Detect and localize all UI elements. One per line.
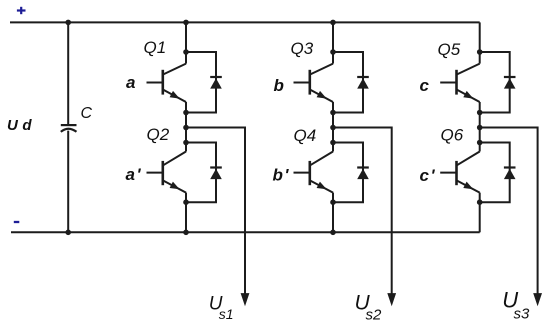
wire: DC+ top rail [10, 21, 480, 23]
node: Q4 emitter / diode bottom [330, 199, 336, 205]
node: Q1 emitter / diode bottom [183, 110, 189, 116]
wire: phase 2 output tap to arrow Us2 [333, 128, 392, 296]
wire: phase 1 output tap to arrow Us1 [186, 128, 245, 296]
+ terminal of DC source [17, 7, 26, 14]
node: Q2 emitter / diode bottom [183, 199, 189, 205]
node: Q6 collector / diode tap [477, 140, 483, 146]
node: leg 1 / bottom rail junction [183, 230, 189, 236]
diode (freewheeling, across Q3) [333, 52, 369, 113]
diode (freewheeling, across Q2) [186, 143, 222, 203]
wire: leg 2 lower segment (Q4 emitter to bottom rail) [332, 193, 334, 233]
node: Q5 emitter / diode bottom [477, 110, 483, 116]
node: Q5 collector / diode tap [477, 49, 483, 55]
node: Q3 emitter / diode bottom [330, 110, 336, 116]
arrowhead of output Us2 [387, 293, 396, 306]
node: capacitor / top rail junction [65, 20, 71, 26]
wire: phase 3 output tap to arrow Us3 [480, 128, 538, 296]
wire: leg 3 middle segment (Q5 emitter to Q6 collector) [479, 102, 481, 152]
transistor Q3 (NPN, upper switch of leg 2) [294, 64, 334, 102]
node: phase 1 output tap [183, 125, 189, 131]
wire: leg 2 middle segment (Q3 emitter to Q4 collector) [332, 102, 334, 152]
capacitor C (DC link) [61, 22, 77, 232]
svg-text:C: C [81, 105, 93, 122]
svg-text:c': c' [420, 166, 436, 185]
- terminal of DC source [14, 221, 19, 223]
svg-text:Ud: Ud [7, 117, 36, 134]
node: phase 3 output tap [477, 125, 483, 131]
svg-text:s2: s2 [366, 307, 383, 324]
node: Q4 collector / diode tap [330, 140, 336, 146]
svg-text:Q4: Q4 [294, 126, 317, 145]
svg-text:Q6: Q6 [441, 126, 464, 145]
svg-text:a: a [126, 73, 135, 92]
node: Q6 emitter / diode bottom [477, 199, 483, 205]
svg-text:Q1: Q1 [144, 38, 167, 57]
diode (freewheeling, across Q6) [480, 143, 516, 203]
node: leg 1 / top rail junction [183, 20, 189, 26]
diode (freewheeling, across Q1) [186, 52, 222, 113]
transistor Q2 (NPN, lower switch of leg 1) [147, 152, 187, 193]
svg-text:Q5: Q5 [438, 40, 461, 59]
node: Q1 collector / diode tap [183, 49, 189, 55]
node: capacitor / bottom rail junction [65, 230, 71, 236]
transistor Q5 (NPN, upper switch of leg 3) [440, 64, 480, 102]
arrowhead of output Us1 [241, 293, 250, 306]
transistor Q1 (NPN, upper switch of leg 1) [147, 64, 187, 102]
svg-text:b': b' [273, 166, 290, 185]
wire: leg 1 upper segment (top rail to Q1 collector) [185, 22, 187, 63]
arrowhead of output Us3 [533, 293, 542, 306]
svg-text:c: c [420, 76, 430, 95]
wire: leg 3 lower segment (Q6 emitter to bottom rail) [479, 193, 481, 233]
diode (freewheeling, across Q4) [333, 143, 369, 203]
wire: leg 1 lower segment (Q2 emitter to bottom rail) [185, 193, 187, 233]
svg-text:a': a' [126, 165, 142, 184]
wire: DC- bottom rail [11, 231, 480, 233]
wire: leg 2 upper segment (top rail to Q3 collector) [332, 22, 334, 63]
svg-text:s1: s1 [219, 306, 234, 322]
transistor Q6 (NPN, lower switch of leg 3) [440, 152, 480, 193]
wire: leg 1 middle segment (Q1 emitter to Q2 collector) [185, 102, 187, 152]
svg-text:s3: s3 [514, 305, 531, 322]
svg-text:Q2: Q2 [147, 125, 170, 144]
node: leg 2 / bottom rail junction [330, 230, 336, 236]
transistor Q4 (NPN, lower switch of leg 2) [294, 152, 334, 193]
wire: leg 3 upper segment (top rail to Q5 collector) [479, 22, 481, 63]
node: Q3 collector / diode tap [330, 49, 336, 55]
svg-text:Q3: Q3 [291, 39, 314, 58]
svg-text:b: b [274, 76, 284, 95]
node: leg 2 / top rail junction [330, 20, 336, 26]
diode (freewheeling, across Q5) [480, 52, 516, 113]
node: Q2 collector / diode tap [183, 140, 189, 146]
node: phase 2 output tap [330, 125, 336, 131]
